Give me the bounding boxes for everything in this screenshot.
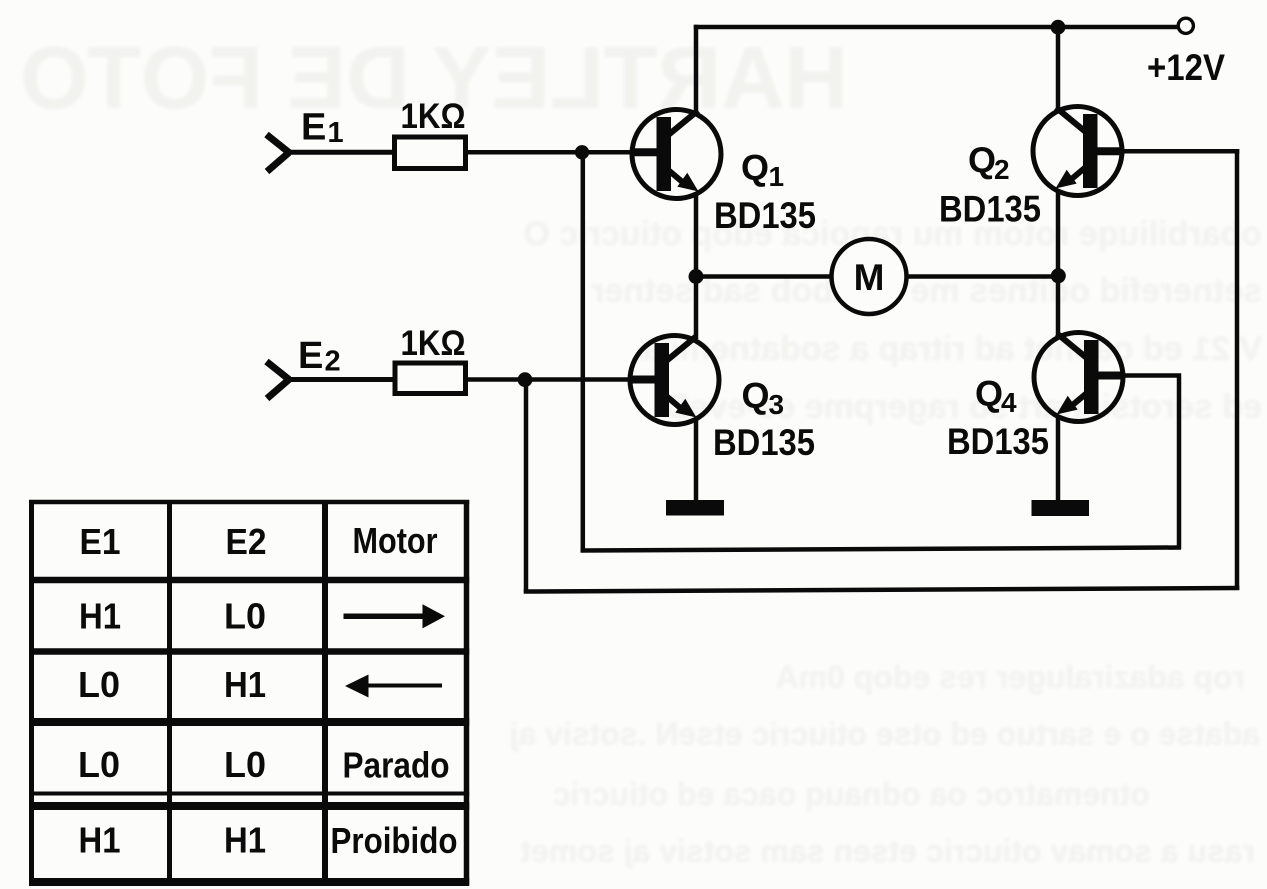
+12V terminal [1178,18,1193,33]
table row 5: H1 H1 Proibido [79,820,458,862]
svg-text:1: 1 [328,117,344,149]
wire Q4 base horizontal [1123,373,1181,378]
wire node M-left to motor [696,274,833,279]
wire R2 to node B and Q3 base [466,377,633,382]
svg-text:Q: Q [975,373,1003,414]
wire Q1 emitter to node M-left [694,193,699,277]
svg-text:adatse o e sartuo ed otse otiu: adatse o e sartuo ed otse otiucric etseN… [510,716,1260,752]
svg-text:4: 4 [1001,387,1017,418]
table row 3: L0 H1 left-arrow [78,664,266,705]
svg-text:BD135: BD135 [713,422,815,463]
svg-text:Q: Q [741,147,769,188]
svg-text:L0: L0 [78,744,120,785]
svg-text:Proibido: Proibido [331,820,458,861]
svg-text:1KΩ: 1KΩ [401,97,466,136]
wire Q1 collector to +12V rail [694,25,699,113]
wire Q2 base horizontal [1122,149,1239,154]
input terminal E1 [267,135,290,172]
wire node B down (E2 feedback vertical) [524,380,529,594]
input terminal E2 [267,362,290,399]
svg-text:+12V: +12V [1147,47,1225,88]
transistor Q1 [632,110,721,199]
wire node M-right to Q4 collector [1056,276,1061,336]
wire Q2 emitter to node M-right [1056,190,1061,277]
resistor R2 [395,363,466,394]
svg-text:3: 3 [769,389,785,420]
arrow left (motor direction) [345,675,442,698]
wire across bottom to Q2 base riser [524,588,1240,592]
table outer and grid lines [29,500,469,885]
svg-text:L0: L0 [224,596,266,637]
wire motor to node M-right [905,274,1058,279]
svg-text:V 21 ed oasnet ad ritrap a sod: V 21 ed oasnet ad ritrap a sodatnemila [641,330,1262,368]
node B junction dot [518,372,533,387]
arrow right (motor direction) [344,604,446,628]
wire Q3 emitter to ground [694,419,699,503]
+12V rail wire [694,25,1177,30]
wire E2 input to R2 [287,377,394,382]
wire rail to Q2 collector [1056,27,1061,110]
wire riser up to Q4 base [1177,374,1182,550]
svg-text:H1: H1 [224,664,266,705]
node M-right junction dot [1051,268,1066,283]
TRUTH TABLE [29,500,469,885]
wire R1 to node A and Q1 base [468,150,634,155]
svg-text:H1: H1 [224,820,266,861]
svg-text:M: M [854,257,885,298]
svg-text:rop adaziraluger res edop 0mA: rop adaziraluger res edop 0mA [776,659,1245,695]
label E2 [298,335,341,378]
ground (Q3 emitter) [666,500,724,516]
transistor Q3 [630,336,719,425]
svg-text:1KΩ: 1KΩ [401,324,466,363]
label Q2 [968,140,1010,186]
svg-text:1: 1 [769,161,785,192]
svg-text:L0: L0 [78,664,120,705]
svg-text:H1: H1 [79,820,121,861]
label Q1 [741,147,784,192]
svg-text:Q: Q [968,140,996,181]
wire E1 input to R1 [287,150,393,155]
svg-text:E: E [301,107,326,149]
svg-text:BD135: BD135 [947,421,1049,462]
svg-text:Motor: Motor [353,520,438,561]
svg-text:E2: E2 [226,521,267,562]
svg-text:Parado: Parado [343,745,450,786]
node A junction dot [575,145,589,159]
svg-text:E: E [298,335,323,377]
svg-text:H1: H1 [79,596,121,637]
wire node M-left to Q3 collector [694,277,699,340]
ground (Q4 emitter) [1032,500,1090,516]
label Q3 [742,375,785,420]
svg-text:2: 2 [325,346,341,378]
svg-text:Q: Q [742,375,770,416]
svg-text:E1: E1 [80,521,121,562]
svg-text:rasu a somav otiucric etsen sa: rasu a somav otiucric etsen sam sotsiv a… [520,833,1255,869]
table row 4: L0 L0 Parado [78,744,450,786]
wire Q4 emitter to ground [1056,416,1061,503]
resistor R1 [395,137,466,169]
table header row: E1 E2 Motor [80,520,438,562]
motor M [832,239,907,314]
label Q4 [975,373,1017,418]
transistor Q2 [1033,107,1122,196]
svg-text:otnematroc oa odnauq oaca ed o: otnematroc oa odnauq oaca ed otiucric [553,776,1150,812]
svg-text:L0: L0 [224,744,266,785]
label E1 [301,107,344,150]
node +12V rail junction dot [1051,20,1066,35]
svg-text:BD135: BD135 [939,189,1041,230]
node M-left junction dot [689,269,704,284]
table row 2: H1 L0 right-arrow [79,596,266,637]
wire node A down (E1 feedback vertical) [581,152,586,552]
wire across bottom to Q4 base riser [581,548,1182,551]
svg-text:BD135: BD135 [714,195,816,236]
wire riser up to Q2 base [1235,149,1240,590]
transistor Q4 [1034,333,1123,422]
svg-text:2: 2 [994,154,1010,185]
